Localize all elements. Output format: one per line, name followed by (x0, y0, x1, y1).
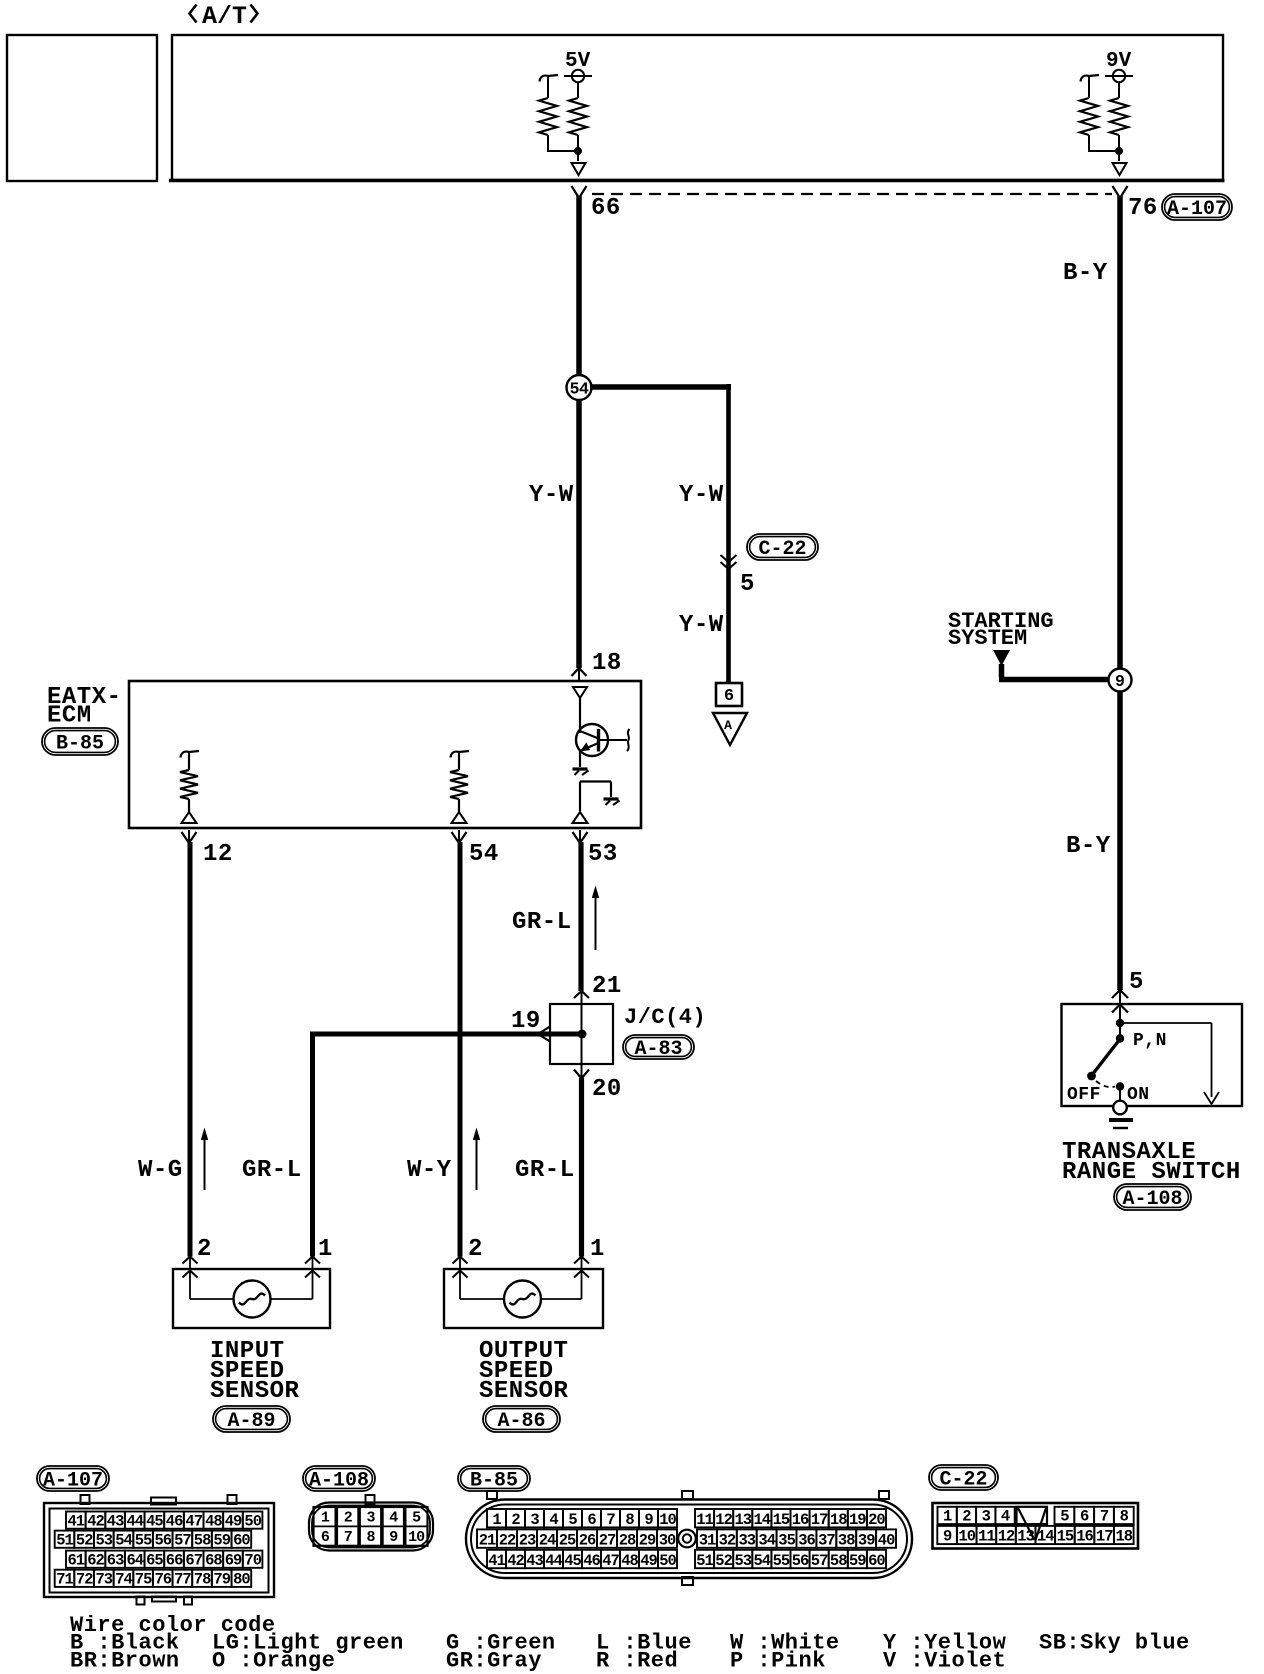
pin 76 arrow (1113, 186, 1128, 198)
pin 12 arrow (182, 832, 197, 843)
transistor Q1 (576, 724, 608, 756)
svg-text:2: 2 (511, 1511, 520, 1529)
J/C center junction dot (578, 1030, 587, 1039)
module bus box (top) (172, 35, 1223, 180)
junction circle 9 (1117, 668, 1123, 692)
svg-text:10: 10 (958, 1528, 975, 1546)
output sensor internal wiring (459, 1271, 461, 1299)
svg-text:ECM: ECM (47, 703, 92, 730)
svg-text:73: 73 (95, 1571, 112, 1589)
switch contact P,N dot (1119, 1023, 1121, 1038)
svg-text:SYSTEM: SYSTEM (948, 626, 1027, 651)
svg-text:56: 56 (792, 1552, 809, 1570)
transaxle range switch box (1062, 1004, 1243, 1106)
svg-text:2: 2 (344, 1510, 353, 1527)
svg-text:79: 79 (213, 1571, 230, 1589)
internal terminal triangle (5V branch) (572, 163, 586, 175)
svg-text:75: 75 (135, 1571, 152, 1589)
svg-text:GR-L: GR-L (515, 1157, 575, 1184)
svg-text:17: 17 (811, 1511, 828, 1529)
svg-text:R :Red: R :Red (596, 1649, 678, 1674)
svg-text:61: 61 (67, 1551, 84, 1569)
svg-text:46: 46 (583, 1552, 600, 1570)
svg-text:36: 36 (798, 1531, 815, 1549)
svg-text:52: 52 (76, 1531, 93, 1549)
svg-text:23: 23 (519, 1531, 536, 1549)
svg-text:34: 34 (758, 1531, 775, 1549)
svg-text:24: 24 (539, 1531, 556, 1549)
svg-text:78: 78 (194, 1571, 211, 1589)
connector B-85 pin row 21-30 (477, 1529, 497, 1547)
connector A-107 pin row 51-60 (55, 1531, 75, 1548)
svg-text:52: 52 (715, 1552, 732, 1570)
connector label C-22 (pinout) (929, 1465, 998, 1492)
svg-text:21: 21 (592, 973, 622, 1000)
svg-text:80: 80 (233, 1571, 250, 1589)
connector A-107 outline (44, 1503, 274, 1597)
output sensor pin 1 entry chevrons (574, 1257, 589, 1264)
svg-text:48: 48 (205, 1512, 222, 1530)
svg-text:B-Y: B-Y (1066, 833, 1111, 860)
svg-text:A-108: A-108 (309, 1470, 369, 1493)
pin 21 arrow (574, 991, 589, 998)
svg-text:7: 7 (606, 1511, 615, 1529)
svg-text:49: 49 (225, 1512, 242, 1530)
svg-text:15: 15 (1057, 1528, 1074, 1546)
svg-text:18: 18 (830, 1511, 847, 1529)
svg-text:47: 47 (602, 1552, 619, 1570)
resistor R5 inside ECM (pin 12) (181, 751, 200, 758)
svg-text:43: 43 (526, 1552, 543, 1570)
svg-text:GR:Gray: GR:Gray (446, 1649, 542, 1674)
wire Y-W from junction 54 to ECM pin 18 (576, 400, 582, 668)
svg-text:7: 7 (344, 1529, 352, 1546)
svg-text:5: 5 (412, 1510, 421, 1527)
connector label A-107 (pinout) (37, 1466, 109, 1493)
svg-text:66: 66 (166, 1551, 183, 1569)
svg-text:39: 39 (858, 1531, 875, 1549)
connector B-85 pin row 51-60 (695, 1550, 714, 1568)
svg-text:V :Violet: V :Violet (883, 1649, 1006, 1674)
svg-text:59: 59 (213, 1531, 230, 1549)
svg-text:A/T: A/T (202, 2, 247, 31)
wire Y-W branch from junction 54 to the right (590, 384, 731, 390)
svg-text:76: 76 (154, 1571, 171, 1589)
svg-text:9: 9 (1115, 672, 1125, 691)
svg-text:32: 32 (719, 1531, 736, 1549)
connector A-108 top tab (366, 1495, 375, 1504)
svg-text:A-86: A-86 (497, 1410, 545, 1433)
wire Y-W branch down to C-22 (726, 384, 731, 683)
box top-left (blank module box) (7, 35, 157, 181)
input sensor pin 1 entry chevrons (305, 1257, 320, 1264)
ground bars below switch (1109, 1118, 1133, 1122)
pin 54 arrow (452, 832, 467, 843)
connector C-22 pin row 1-4 (938, 1507, 957, 1524)
junction connector J/C(4) box (550, 1004, 613, 1064)
junction circle 54 (567, 375, 592, 400)
svg-text:12: 12 (998, 1528, 1015, 1546)
svg-text:OFF: OFF (1067, 1085, 1101, 1105)
connector label B-85 (at ECM) (42, 728, 118, 756)
svg-text:26: 26 (579, 1531, 596, 1549)
wire W-Y from ECM pin 54 to output sensor pin 2 (458, 842, 463, 1257)
svg-text:43: 43 (107, 1512, 124, 1530)
resistor R4 (parallel, to other circuit) (1081, 75, 1100, 82)
svg-text:37: 37 (818, 1531, 835, 1549)
resistor R3 (9V pull-up) (1110, 98, 1128, 135)
connector C-22 keyway (1017, 1507, 1048, 1524)
svg-text:A-108: A-108 (1122, 1188, 1182, 1211)
svg-text:Y-W: Y-W (679, 482, 724, 509)
svg-text:10: 10 (408, 1529, 425, 1546)
svg-text:Y-W: Y-W (529, 482, 574, 509)
output speed sensor box (444, 1269, 603, 1328)
svg-text:13: 13 (734, 1511, 751, 1529)
svg-text:25: 25 (559, 1531, 576, 1549)
svg-text:A-83: A-83 (634, 1038, 682, 1061)
svg-text:B-Y: B-Y (1063, 260, 1108, 287)
svg-text:27: 27 (599, 1531, 616, 1549)
svg-text:41: 41 (488, 1552, 505, 1570)
connector B-85 bottom tab (682, 1577, 693, 1585)
svg-text:7: 7 (1100, 1508, 1109, 1526)
starting system arrow (filled triangle) (993, 650, 1010, 666)
connector B-85 top tabs (487, 1491, 497, 1499)
connector B-85 index circle (678, 1530, 696, 1548)
svg-text:2: 2 (962, 1508, 971, 1526)
svg-text:19: 19 (511, 1008, 541, 1035)
branch arrowhead (down) (1204, 1092, 1219, 1104)
junction dot at 5V divider (574, 147, 582, 155)
svg-text:20: 20 (592, 1076, 622, 1103)
svg-text:W-Y: W-Y (407, 1157, 452, 1184)
wire Y-W from pin 66 down to junction 54 (576, 196, 582, 377)
module bus box bottom heavy edge (169, 179, 1225, 183)
svg-text:42: 42 (87, 1512, 104, 1530)
J/C internal wire vertical (581, 1004, 583, 1078)
pin 53 arrow (573, 832, 588, 843)
pin 66 arrow (572, 186, 587, 198)
svg-text:W-G: W-G (138, 1157, 183, 1184)
svg-text:2: 2 (197, 1236, 212, 1263)
svg-text:41: 41 (67, 1512, 84, 1530)
switch common junction dot (1116, 1019, 1124, 1027)
internal terminal triangle (9V branch) (1113, 163, 1127, 175)
resistor R6 inside ECM (pin 54) (451, 751, 470, 758)
svg-text:1: 1 (318, 1236, 333, 1263)
svg-text:12: 12 (203, 841, 233, 868)
svg-text:65: 65 (146, 1551, 163, 1569)
svg-text:3: 3 (366, 1510, 375, 1527)
connector B-85 pin row 41-50 (487, 1550, 506, 1568)
svg-text:5: 5 (1129, 969, 1144, 996)
wire transistor emitter to ground (579, 750, 581, 767)
svg-text:56: 56 (154, 1531, 171, 1549)
svg-text:68: 68 (205, 1551, 222, 1569)
svg-text:8: 8 (625, 1511, 634, 1529)
svg-text:J/C(4): J/C(4) (624, 1005, 706, 1030)
connector B-85 pin row 31-40 (697, 1529, 717, 1547)
svg-text:11: 11 (696, 1511, 713, 1529)
svg-text:17: 17 (1096, 1528, 1113, 1546)
connector B-85 pin row 11-20 (695, 1509, 714, 1527)
svg-text:76: 76 (1128, 195, 1158, 222)
wire B-Y from junction 9 to transaxle range switch (1117, 692, 1123, 990)
svg-text:B-85: B-85 (470, 1470, 518, 1493)
connector C-22 outline (933, 1503, 1139, 1549)
svg-text:9: 9 (644, 1511, 653, 1529)
svg-text:54: 54 (469, 841, 499, 868)
svg-text:51: 51 (696, 1552, 713, 1570)
svg-text:53: 53 (95, 1531, 112, 1549)
connector A-107 pin row 41-50 (66, 1512, 86, 1529)
svg-text:1: 1 (321, 1510, 330, 1527)
svg-text:4: 4 (389, 1510, 398, 1527)
direction arrow (input sensor signal W-G) (204, 1132, 206, 1190)
svg-text:6: 6 (321, 1529, 330, 1546)
svg-text:31: 31 (699, 1531, 716, 1549)
svg-text:BR:Brown: BR:Brown (70, 1649, 180, 1674)
svg-text:44: 44 (545, 1552, 562, 1570)
svg-text:6: 6 (587, 1511, 596, 1529)
svg-text:2: 2 (468, 1236, 483, 1263)
direction arrow (output sensor signal W-Y) (476, 1132, 478, 1190)
output sensor pin 2 entry chevrons (453, 1257, 468, 1264)
svg-text:55: 55 (773, 1552, 790, 1570)
internal terminal triangle at pin 53 (573, 812, 588, 823)
svg-text:4: 4 (549, 1511, 558, 1529)
svg-text:18: 18 (592, 650, 622, 677)
wire from starting system to junction 9 (999, 664, 1005, 677)
dashed interconnect wire (66 to 76) (592, 193, 1112, 195)
svg-text:55: 55 (135, 1531, 152, 1549)
svg-text:38: 38 (838, 1531, 855, 1549)
wire 5V to resistor (577, 82, 579, 98)
connector label A-83 (623, 1035, 694, 1061)
svg-text:16: 16 (792, 1511, 809, 1529)
connector C-22 pin row 9-18 (937, 1526, 957, 1544)
svg-text:69: 69 (225, 1551, 242, 1569)
wire ON contact to case ground (1119, 1087, 1121, 1101)
svg-text:C-22: C-22 (939, 1469, 987, 1492)
svg-text:60: 60 (868, 1552, 885, 1570)
svg-text:47: 47 (185, 1512, 202, 1530)
svg-text:44: 44 (126, 1512, 143, 1530)
svg-text:GR-L: GR-L (242, 1157, 302, 1184)
input speed sensor box (173, 1269, 330, 1328)
svg-text:1: 1 (943, 1508, 952, 1526)
svg-text:SENSOR: SENSOR (210, 1378, 300, 1405)
connector label B-85 (pinout) (458, 1466, 530, 1493)
svg-text:77: 77 (174, 1571, 191, 1589)
svg-text:42: 42 (507, 1552, 524, 1570)
svg-text:11: 11 (978, 1528, 995, 1546)
ground (ECM internal, transistor) (573, 767, 588, 770)
connector A-107 top tabs (81, 1495, 90, 1504)
input sensor pin 2 entry chevrons (183, 1257, 198, 1264)
svg-text:46: 46 (166, 1512, 183, 1530)
connector label A-107 (top right) (1162, 194, 1232, 221)
connector A-108 outline (309, 1503, 433, 1551)
svg-text:5: 5 (740, 571, 755, 598)
case ground circle on box edge (1113, 1101, 1127, 1115)
svg-text:45: 45 (564, 1552, 581, 1570)
svg-text:6: 6 (724, 687, 734, 706)
wire pin 18 to transistor Q1 (579, 698, 581, 733)
connector label A-108 (at switch) (1114, 1184, 1191, 1211)
pin 19 arrow (leftward) (538, 1027, 550, 1042)
svg-text:8: 8 (366, 1529, 375, 1546)
wire W-G from ECM pin 12 to input sensor pin 2 (188, 842, 193, 1257)
svg-text:64: 64 (126, 1551, 143, 1569)
pin 5 entry chevrons (1112, 990, 1128, 998)
svg-text:66: 66 (591, 195, 621, 222)
svg-text:3: 3 (982, 1508, 991, 1526)
terminal box 6 (716, 683, 742, 706)
svg-text:P,N: P,N (1133, 1031, 1167, 1051)
connector B-85 pin row 1-10 (487, 1509, 506, 1527)
connector B-85 outline (466, 1500, 912, 1579)
svg-text:RANGE SWITCH: RANGE SWITCH (1062, 1159, 1241, 1186)
wire L-shape to second ground (580, 780, 611, 782)
svg-text:30: 30 (659, 1531, 676, 1549)
svg-text:53: 53 (588, 841, 618, 868)
svg-text:63: 63 (107, 1551, 124, 1569)
svg-text:10: 10 (659, 1511, 676, 1529)
svg-text:40: 40 (878, 1531, 895, 1549)
ground reference triangle A (713, 713, 747, 745)
svg-text:18: 18 (1115, 1528, 1132, 1546)
svg-text:A-89: A-89 (227, 1410, 275, 1433)
ground (ECM internal, second) (604, 797, 619, 800)
svg-text:9: 9 (943, 1528, 952, 1546)
svg-text:1: 1 (492, 1511, 501, 1529)
connector A-107 pin row 61-70 (66, 1551, 86, 1568)
svg-text:58: 58 (830, 1552, 847, 1570)
connector label A-89 (213, 1406, 290, 1433)
EATX-ECM module box (129, 681, 641, 828)
direction arrow (GR-L signal up) (595, 890, 597, 950)
input sensor generator symbol (234, 1281, 271, 1318)
svg-text:5: 5 (1060, 1508, 1069, 1526)
svg-text:P :Pink: P :Pink (730, 1649, 826, 1674)
switch lever (to OFF) (1092, 1039, 1120, 1075)
connector A-107 bottom tabs (137, 1597, 145, 1605)
svg-text:15: 15 (773, 1511, 790, 1529)
svg-text:A: A (724, 718, 732, 733)
svg-text:71: 71 (56, 1571, 73, 1589)
svg-text:49: 49 (640, 1552, 657, 1570)
connector label A-108 (pinout) (303, 1466, 375, 1493)
svg-text:C-22: C-22 (758, 538, 806, 561)
svg-text:72: 72 (76, 1571, 93, 1589)
connector A-108 pin grid (314, 1507, 428, 1546)
svg-text:33: 33 (738, 1531, 755, 1549)
svg-text:35: 35 (778, 1531, 795, 1549)
switch movement dashed arc (1096, 1081, 1115, 1087)
svg-text:5: 5 (568, 1511, 577, 1529)
svg-text:SB:Sky blue: SB:Sky blue (1039, 1631, 1190, 1656)
svg-text:70: 70 (244, 1551, 261, 1569)
svg-text:57: 57 (811, 1552, 828, 1570)
svg-text:50: 50 (659, 1552, 676, 1570)
switch wire to diode branch (1120, 1022, 1212, 1024)
wire GR-L from J/C to input sensor pin 1 (310, 1032, 582, 1037)
svg-text:SENSOR: SENSOR (479, 1378, 569, 1405)
input sensor internal wiring (189, 1271, 191, 1299)
svg-text:6: 6 (1080, 1508, 1089, 1526)
svg-text:A-107: A-107 (1167, 198, 1227, 221)
svg-text:57: 57 (174, 1531, 191, 1549)
output sensor generator symbol (504, 1281, 541, 1318)
svg-text:54: 54 (115, 1531, 132, 1549)
connector label A-86 (483, 1406, 560, 1433)
svg-text:A-107: A-107 (43, 1470, 103, 1493)
resistor R1 (5V pull-up) (569, 98, 587, 135)
switch lever end dot (1087, 1072, 1096, 1081)
wire B-Y from pin 76 down to junction 9 (1117, 196, 1123, 668)
switch common feed wire (1119, 1008, 1121, 1022)
svg-text:22: 22 (499, 1531, 516, 1549)
switch contact ON dot (1116, 1082, 1124, 1090)
internal terminal triangle at pin 18 (573, 687, 587, 698)
svg-text:B-85: B-85 (56, 733, 104, 756)
svg-text:GR-L: GR-L (512, 909, 572, 936)
svg-text:13: 13 (1017, 1528, 1034, 1546)
svg-text:29: 29 (639, 1531, 656, 1549)
svg-text:19: 19 (849, 1511, 866, 1529)
svg-text:3: 3 (530, 1511, 539, 1529)
svg-text:51: 51 (56, 1531, 73, 1549)
connector C-22 pass-through chevrons (721, 555, 737, 562)
svg-text:16: 16 (1076, 1528, 1093, 1546)
wire 9V to resistor (1118, 82, 1120, 98)
connector A-107 pin row 71-80 (55, 1570, 75, 1587)
svg-text:ON: ON (1127, 1085, 1150, 1105)
svg-text:8: 8 (1120, 1508, 1129, 1526)
wire GR-L from ECM pin 53 to J/C pin 21 (578, 842, 583, 991)
svg-text:53: 53 (734, 1552, 751, 1570)
svg-text:9: 9 (389, 1529, 398, 1546)
svg-text:12: 12 (715, 1511, 732, 1529)
svg-text:74: 74 (115, 1571, 132, 1589)
wire GR-L from J/C pin 20 to output sensor pin 1 (579, 1078, 584, 1257)
svg-text:1: 1 (590, 1236, 605, 1263)
svg-text:67: 67 (185, 1551, 202, 1569)
svg-text:58: 58 (194, 1531, 211, 1549)
power symbol 9V (circle-bar) (1113, 70, 1125, 82)
svg-text:4: 4 (1001, 1508, 1010, 1526)
svg-text:45: 45 (146, 1512, 163, 1530)
svg-text:59: 59 (849, 1552, 866, 1570)
connector label C-22 (inline) (747, 534, 818, 561)
pin 20 arrow (upward toward box) (574, 1070, 589, 1079)
power symbol 5V (circle-bar) (572, 70, 584, 82)
svg-text:54: 54 (570, 380, 589, 399)
svg-text:14: 14 (1037, 1528, 1054, 1546)
svg-text:14: 14 (753, 1511, 770, 1529)
svg-text:21: 21 (479, 1531, 496, 1549)
svg-text:28: 28 (619, 1531, 636, 1549)
svg-text:62: 62 (87, 1551, 104, 1569)
junction dot at 9V divider (1115, 147, 1123, 155)
svg-text:O :Orange: O :Orange (212, 1649, 335, 1674)
svg-text:54: 54 (753, 1552, 770, 1570)
svg-text:20: 20 (868, 1511, 885, 1529)
svg-text:Y-W: Y-W (679, 612, 724, 639)
resistor R2 (parallel, to other circuit) (540, 75, 559, 82)
